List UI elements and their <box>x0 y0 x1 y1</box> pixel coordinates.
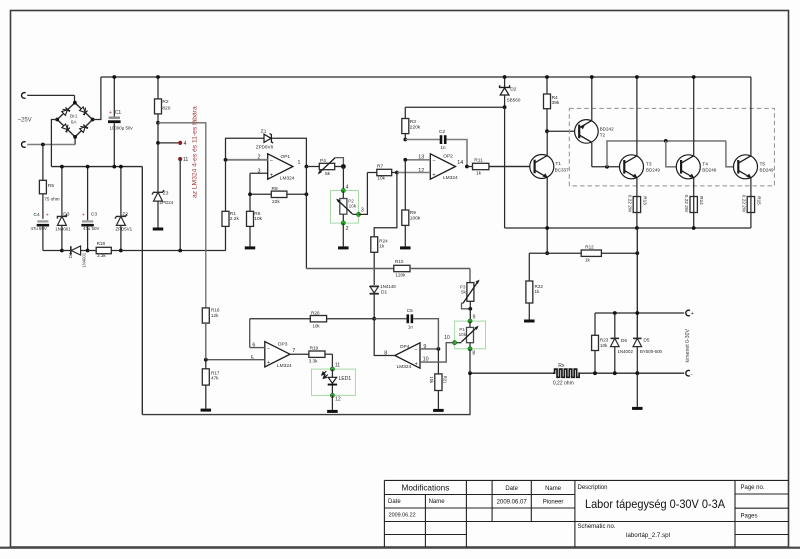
wire pin2 <box>226 159 268 161</box>
svg-text:kimenet 0-30V: kimenet 0-30V <box>685 329 691 363</box>
svg-text:BD242: BD242 <box>600 126 614 131</box>
capacitor C2 <box>405 139 439 141</box>
wire T2 collector to T3 base <box>592 166 624 168</box>
diode D2 <box>504 77 506 87</box>
svg-text:BC337: BC337 <box>555 168 569 173</box>
junction T1e R12 <box>545 251 549 255</box>
svg-text:5k: 5k <box>325 171 331 177</box>
resistor R16 <box>202 308 209 323</box>
resistor R3 <box>404 107 406 118</box>
svg-text:1k: 1k <box>379 244 385 249</box>
svg-text:12: 12 <box>335 397 341 403</box>
wire node11 down <box>179 159 181 251</box>
junction C3 top <box>86 165 90 169</box>
svg-text:T2: T2 <box>600 132 606 138</box>
resistor R9 <box>404 160 406 210</box>
wire pin6 up <box>249 319 251 348</box>
junction Z2 bottom <box>119 249 123 253</box>
junction T2 rail <box>590 75 594 79</box>
title block <box>384 479 788 481</box>
resistor R22 <box>528 253 530 281</box>
svg-text:0.22 2W: 0.22 2W <box>741 195 746 213</box>
svg-text:D5: D5 <box>643 338 649 344</box>
junction R4 bottom <box>545 129 549 133</box>
resistor R18 <box>88 250 97 252</box>
gray drop T4 <box>666 141 682 167</box>
trimmer P3 <box>469 282 471 284</box>
connector J2 AC input bottom <box>22 142 26 148</box>
svg-text:5: 5 <box>251 356 254 362</box>
junction C1 bottom <box>112 165 116 169</box>
resistor R5 <box>42 145 44 181</box>
svg-text:~25V: ~25V <box>18 117 32 123</box>
wire pin5 <box>206 359 265 361</box>
bridge diode bottom-left <box>62 123 72 133</box>
svg-text:0,22 ohm: 0,22 ohm <box>553 381 574 387</box>
svg-text:+: + <box>432 172 435 178</box>
wire AC2 <box>27 144 75 146</box>
junction D5 - <box>635 371 639 375</box>
node 11 <box>178 157 182 161</box>
wire main output vertical <box>636 228 638 313</box>
svg-text:LM324: LM324 <box>277 363 292 369</box>
svg-text:4: 4 <box>346 184 349 190</box>
op-amp OP2 <box>430 154 455 179</box>
svg-text:5k: 5k <box>461 289 467 294</box>
svg-text:1k: 1k <box>585 258 591 263</box>
wire - node <box>580 372 684 374</box>
node LED 12 <box>330 393 334 397</box>
svg-text:R19: R19 <box>310 346 319 351</box>
svg-text:100k: 100k <box>410 215 421 221</box>
wire DC- vertical <box>141 167 143 415</box>
svg-text:2009.06.07: 2009.06.07 <box>497 499 528 505</box>
diode D5 <box>633 338 642 346</box>
pot P2 box <box>331 191 359 224</box>
svg-text:OP3: OP3 <box>278 342 288 348</box>
diode D6 <box>614 313 616 338</box>
resistor R23 <box>594 313 596 335</box>
svg-text:−: − <box>270 158 273 164</box>
svg-text:R13: R13 <box>642 196 647 205</box>
svg-text:R6: R6 <box>254 211 260 217</box>
wire - ground <box>636 373 638 407</box>
resistor R7 <box>367 172 376 174</box>
svg-text:D3: D3 <box>63 211 69 217</box>
junction out+ main <box>635 311 639 315</box>
svg-text:Date: Date <box>388 499 401 505</box>
resistor R6 <box>247 211 254 226</box>
svg-text:Z2: Z2 <box>122 211 128 217</box>
svg-text:BD249: BD249 <box>760 167 774 172</box>
wire bottom return bus <box>142 373 470 414</box>
node bridge bottom <box>73 135 77 139</box>
junction node11 bus <box>178 249 182 253</box>
svg-text:0.22 2W: 0.22 2W <box>684 195 689 213</box>
resistor R11 <box>467 166 473 168</box>
svg-text:OP2: OP2 <box>443 154 453 160</box>
capacitor C1 <box>113 77 115 117</box>
wire bus to D4 <box>62 250 71 252</box>
node P1-9 <box>468 319 472 323</box>
svg-text:1: 1 <box>298 160 301 166</box>
junction P3 wiper <box>468 307 472 311</box>
node P2-4 <box>341 188 345 192</box>
svg-text:R7: R7 <box>377 163 383 169</box>
svg-text:R10: R10 <box>395 259 404 264</box>
svg-text:BD249: BD249 <box>702 167 716 172</box>
junction pin5 <box>204 358 208 362</box>
svg-text:LM324: LM324 <box>443 175 458 181</box>
node P1-8 <box>468 347 472 351</box>
wire D2 down to emitter bus <box>504 107 506 228</box>
gray driver line <box>607 141 726 167</box>
transistor T3 <box>620 155 644 179</box>
node P1-10 <box>453 341 457 345</box>
ground P2 <box>338 246 349 249</box>
svg-text:SB560: SB560 <box>507 98 521 103</box>
wire pin6 <box>250 347 265 349</box>
junction D3 bottom <box>60 249 64 253</box>
junction D6 - <box>613 371 617 375</box>
svg-text:LED1: LED1 <box>339 376 352 382</box>
svg-text:BD249: BD249 <box>646 167 660 172</box>
junction C1 rail <box>112 75 116 79</box>
wire R2 to Z3 <box>157 123 159 193</box>
wire LED ground <box>331 395 333 410</box>
svg-text:22k: 22k <box>272 199 280 205</box>
svg-text:C3: C3 <box>91 212 97 218</box>
resistor R4 <box>546 77 548 94</box>
capacitor C4 <box>37 220 48 222</box>
wire feedback R10 line <box>306 268 393 270</box>
svg-text:R9: R9 <box>410 210 416 216</box>
svg-text:C1: C1 <box>115 110 122 116</box>
svg-text:Name: Name <box>429 499 446 505</box>
junction Z2 top <box>119 165 123 169</box>
wire R24 hook <box>374 173 397 237</box>
svg-text:R15: R15 <box>756 196 761 205</box>
svg-text:1N4148: 1N4148 <box>380 284 396 289</box>
junction R2 rail <box>156 75 160 79</box>
P1 box <box>455 321 486 349</box>
svg-text:R5: R5 <box>48 183 54 189</box>
wire pin10 hook <box>420 343 455 362</box>
svg-text:1n: 1n <box>440 145 446 150</box>
svg-text:Z3: Z3 <box>163 190 169 196</box>
junction T1e bus <box>545 226 549 230</box>
svg-text:C2: C2 <box>439 129 445 135</box>
wire emitter bus <box>505 227 751 229</box>
svg-text:10000µ 50v: 10000µ 50v <box>110 125 134 130</box>
junction R8 right <box>305 192 309 196</box>
junction R7 right <box>395 171 399 175</box>
svg-text:+: + <box>46 212 49 218</box>
diode D4 <box>70 246 72 255</box>
junction R4 rail <box>545 75 549 79</box>
wire P3 stem <box>469 269 471 283</box>
ground Z3 <box>153 228 164 231</box>
svg-text:labortáp_2.7.spl: labortáp_2.7.spl <box>626 532 670 539</box>
wire P1 to Rx <box>469 349 471 373</box>
svg-text:R14: R14 <box>699 196 704 205</box>
junction P4 out <box>341 164 346 169</box>
wire pin3 <box>250 172 268 174</box>
wire bridge+ to rail <box>93 77 101 120</box>
svg-text:11: 11 <box>335 362 340 368</box>
svg-text:11: 11 <box>183 157 188 163</box>
resistor R21 <box>437 349 439 374</box>
svg-text:6A: 6A <box>71 120 78 126</box>
junction R14 bus <box>692 226 696 230</box>
wire P2 ground <box>342 223 344 246</box>
capacitor C5 <box>374 318 406 320</box>
svg-text:+: + <box>415 361 418 367</box>
dashed power box <box>569 108 774 185</box>
ground R9 <box>400 246 411 249</box>
svg-text:2: 2 <box>346 226 349 232</box>
connector output + <box>686 310 690 316</box>
resistor R14 <box>693 196 695 198</box>
junction node4 tap <box>156 141 160 145</box>
svg-text:47u 50V: 47u 50V <box>31 226 47 231</box>
connector output - <box>686 370 690 376</box>
svg-text:+: + <box>82 212 85 218</box>
LED LED1 <box>331 369 333 377</box>
svg-text:D2: D2 <box>510 87 516 93</box>
svg-text:P4: P4 <box>320 158 326 164</box>
svg-text:2.2k: 2.2k <box>230 216 240 222</box>
junction D3 top <box>60 165 64 169</box>
svg-text:10k: 10k <box>349 203 357 208</box>
wire AC1 down to bridge <box>74 95 76 102</box>
svg-text:2009.06.22: 2009.06.22 <box>389 513 416 519</box>
wire OP1 out down <box>305 167 307 269</box>
resistor R10 <box>394 265 410 271</box>
svg-text:C5: C5 <box>407 308 413 314</box>
svg-text:3.3k: 3.3k <box>309 359 318 364</box>
svg-text:3.3k: 3.3k <box>97 253 106 258</box>
junction D2 rail <box>503 75 507 79</box>
svg-text:7: 7 <box>292 348 295 354</box>
resistor R12 <box>529 252 581 254</box>
junction D1 bottom <box>372 317 376 321</box>
svg-text:1n: 1n <box>408 324 414 329</box>
wire DC- bus <box>51 166 142 168</box>
svg-text:Schematic no.: Schematic no. <box>578 524 616 530</box>
shunt Rx <box>470 372 553 374</box>
svg-text:OP4: OP4 <box>400 344 410 350</box>
svg-text:820: 820 <box>162 106 170 112</box>
svg-text:D6: D6 <box>621 338 627 344</box>
page bottom edge <box>0 547 800 549</box>
wire P3 to node9 <box>469 301 471 321</box>
node bridge top <box>73 101 77 105</box>
svg-text:ZPD24: ZPD24 <box>160 200 174 205</box>
junction R12 right <box>635 251 639 255</box>
svg-text:Modifications: Modifications <box>402 484 450 493</box>
svg-text:75 ohm: 75 ohm <box>44 197 59 202</box>
node bridge right <box>91 118 95 122</box>
wire T2 base <box>547 130 579 132</box>
svg-text:3: 3 <box>361 208 364 214</box>
wire node4 stub <box>158 142 178 144</box>
ground output <box>632 407 643 410</box>
svg-text:Labor tápegység 0-30V 0-3A: Labor tápegység 0-30V 0-3A <box>585 498 725 511</box>
wire AC2 up to bridge <box>74 137 76 145</box>
node bridge left <box>55 118 59 122</box>
svg-text:10k: 10k <box>377 176 385 182</box>
svg-text:Name: Name <box>545 486 562 492</box>
svg-text:ZPD6V8: ZPD6V8 <box>256 145 274 150</box>
wire node3 to R7 <box>359 173 368 215</box>
ground R22 <box>524 320 535 323</box>
wire pin9 <box>420 348 438 350</box>
wire R19 to LED <box>331 354 333 369</box>
svg-text:10k: 10k <box>459 332 467 337</box>
svg-text:Br1: Br1 <box>70 113 78 119</box>
svg-text:R18: R18 <box>97 241 106 246</box>
svg-text:+: + <box>691 311 694 317</box>
transistor T5 <box>734 155 758 179</box>
svg-text:8: 8 <box>472 351 475 357</box>
svg-text:R11: R11 <box>474 157 483 163</box>
svg-text:+: + <box>270 172 273 178</box>
svg-text:R2: R2 <box>162 99 168 105</box>
svg-text:T1: T1 <box>555 161 561 167</box>
junction pin9 <box>437 347 441 351</box>
resistor R8 <box>250 193 271 195</box>
svg-text:-: - <box>691 371 693 377</box>
svg-text:+: + <box>109 110 112 116</box>
wire P4 to P2 <box>342 167 344 191</box>
svg-text:10k: 10k <box>429 376 434 384</box>
connector J1 AC input top <box>22 93 26 99</box>
svg-text:Rx: Rx <box>558 363 565 369</box>
diode D1 <box>370 285 379 287</box>
ground LED <box>327 410 338 413</box>
junction pin2 <box>224 158 228 162</box>
junction out+ D6 <box>613 311 617 315</box>
wire bus to R1 <box>121 250 226 252</box>
junction R2 bottom <box>156 121 160 125</box>
node 4 <box>178 141 182 145</box>
svg-text:Page no.: Page no. <box>741 485 765 491</box>
junction D2 bottom <box>503 105 507 109</box>
junction driver node <box>605 165 609 169</box>
junction T3 rail <box>635 75 639 79</box>
svg-text:D4: D4 <box>68 252 73 258</box>
wire bus C4 <box>43 250 62 252</box>
bridge diode bottom-right <box>79 123 89 133</box>
svg-text:10k: 10k <box>313 324 321 329</box>
svg-text:R1: R1 <box>230 211 236 217</box>
resistor R20 <box>250 318 311 320</box>
resistor R17 <box>205 360 207 369</box>
node P2-3 <box>356 212 360 216</box>
LED1 box <box>312 369 356 395</box>
svg-text:Date: Date <box>505 486 518 492</box>
svg-text:LM324: LM324 <box>280 176 295 182</box>
junction pin13 <box>403 158 407 162</box>
wire bridge- down <box>51 120 57 167</box>
svg-text:+: + <box>267 360 270 366</box>
svg-text:1k: 1k <box>535 289 541 294</box>
junction C3 bottom <box>86 249 90 253</box>
bridge diode top-left <box>61 106 71 116</box>
svg-text:10k: 10k <box>254 216 262 222</box>
svg-text:R8: R8 <box>272 186 278 192</box>
svg-text:az LM324 4-es és 11-es lábára: az LM324 4-es és 11-es lábára <box>191 106 198 198</box>
op-amp OP3 <box>265 342 290 367</box>
junction Rx node8 <box>468 371 472 375</box>
svg-text:LM324: LM324 <box>397 364 412 370</box>
svg-text:ZPD5V1: ZPD5V1 <box>116 226 133 231</box>
junction driver T4 <box>664 139 668 143</box>
wire OP4 out <box>374 319 395 356</box>
junction OP2 out <box>465 165 469 169</box>
resistor R1 <box>225 160 227 212</box>
junction R5 tap <box>41 143 45 147</box>
svg-text:R20: R20 <box>311 310 320 315</box>
svg-text:BY500-600: BY500-600 <box>640 349 663 354</box>
zener Z3 <box>154 192 163 201</box>
svg-text:10k: 10k <box>600 343 608 348</box>
node P2-2 <box>341 221 345 225</box>
junction OP1 out <box>305 165 309 169</box>
svg-text:9: 9 <box>473 315 476 321</box>
pot P2 <box>342 191 344 199</box>
svg-text:D1: D1 <box>381 290 387 296</box>
bridge diode top-right <box>79 106 89 116</box>
svg-text:−: − <box>267 346 270 352</box>
svg-text:10: 10 <box>444 335 450 341</box>
ground R6 <box>245 246 256 249</box>
wire pin3 vertical <box>249 173 251 211</box>
junction T4 rail <box>692 75 696 79</box>
bridge rectifier Br1 <box>57 103 92 137</box>
svg-text:47u 50V: 47u 50V <box>83 226 99 231</box>
svg-text:Pages: Pages <box>741 513 758 519</box>
svg-text:R21: R21 <box>443 376 448 384</box>
wire pin13 <box>405 159 430 161</box>
transistor T1 <box>489 166 535 168</box>
resistor R13 <box>636 196 638 198</box>
wire +rail top <box>101 76 751 78</box>
svg-text:1N4002: 1N4002 <box>618 349 634 354</box>
resistor R24 <box>371 237 378 253</box>
svg-text:R12: R12 <box>585 244 594 249</box>
svg-text:220k: 220k <box>410 125 421 131</box>
svg-text:R4: R4 <box>552 95 558 101</box>
junction R8 left <box>248 192 252 196</box>
zener Z2 <box>120 167 122 217</box>
transistor T2 <box>575 120 599 144</box>
svg-text:Pioneer: Pioneer <box>543 499 564 505</box>
svg-text:Z1: Z1 <box>261 128 267 134</box>
gray drop T5 <box>726 141 739 167</box>
svg-text:C4: C4 <box>34 212 40 218</box>
svg-text:1k: 1k <box>476 170 482 176</box>
svg-text:Description: Description <box>578 485 608 491</box>
svg-text:4: 4 <box>184 141 187 147</box>
junction R13 bus <box>635 226 639 230</box>
resistor R2 <box>157 77 159 99</box>
wire pin12 <box>397 172 430 174</box>
svg-text:14: 14 <box>457 160 463 166</box>
svg-text:12k: 12k <box>211 313 219 318</box>
wire + node <box>595 312 684 314</box>
